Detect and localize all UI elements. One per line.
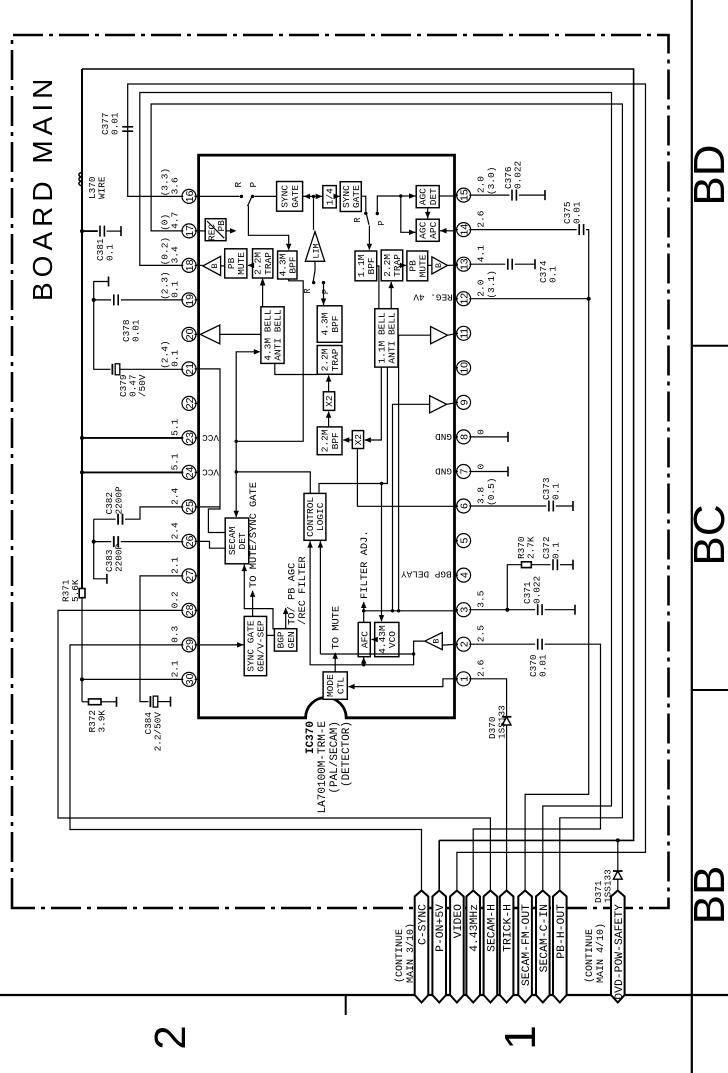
svg-text:/REC FILTER: /REC FILTER [297,556,309,625]
wire pin18/SECAM-C-IN wrap [140,93,612,890]
capacitor C378 at pin19 [121,299,183,301]
svg-text:TO MUTE: TO MUTE [331,606,343,650]
dash-dot border [12,35,669,908]
svg-text:(3.3): (3.3) [160,168,171,197]
svg-text:GND: GND [435,466,452,477]
svg-text:2.0: 2.0 [476,176,487,193]
svg-text:(CONTINUE: (CONTINUE [584,929,596,983]
switch S2 R/P after LIM [314,261,316,270]
svg-text:2: 2 [459,641,471,647]
pin 3 [457,603,471,617]
svg-text:3.8: 3.8 [476,487,487,504]
capacitor C376 at pin15 [469,194,509,196]
svg-text:VCC: VCC [202,467,219,478]
svg-text:(0.5): (0.5) [486,477,497,506]
capacitor C370 at pin2 / 4.43MHz [469,643,535,645]
svg-text:(2.4): (2.4) [160,340,171,369]
svg-text:BPF: BPF [366,257,377,274]
svg-text:4.1: 4.1 [476,245,487,262]
pin 6 [457,499,471,513]
svg-text:18: 18 [184,259,196,271]
arrow TO MUTE/SYNC GATE [252,591,254,616]
svg-text:2200P: 2200P [114,543,125,572]
wire switch S3 P to AGC [377,196,401,214]
svg-text:0.1: 0.1 [548,266,559,283]
amplifier B at pin2 [425,633,443,650]
switch S1 R/P at pin16 [195,195,240,197]
amplifier triangle at pin9 [430,396,447,413]
capacitor C373 at pin6 [469,505,546,507]
wire pin25 joins [199,506,220,508]
wire pin14 to AGC APC [440,230,455,232]
svg-text:MUTE: MUTE [418,254,429,277]
op-amp/IC outline IC370 [199,155,455,718]
pin 20 [182,327,196,341]
arrow REC/PB output [226,230,234,232]
wire pin12 to node [469,298,588,300]
svg-text:C-SYNC: C-SYNC [418,904,430,945]
block REC/PB [205,219,226,241]
svg-text:LA70100M-TRM-E: LA70100M-TRM-E [317,721,329,814]
svg-text:2.5: 2.5 [476,625,487,642]
svg-text:APC: APC [428,221,439,238]
svg-text:3.4: 3.4 [170,246,181,263]
pin 10 [457,361,471,375]
capacitor C371 at pin3 [507,609,535,611]
svg-text:0.1: 0.1 [105,244,116,261]
svg-text:1: 1 [459,676,471,682]
svg-text:VIDEO: VIDEO [453,904,465,938]
connector SECAM-H [484,891,498,1003]
pin 5 [457,534,471,548]
pin 17 [182,224,196,238]
pin 14 [457,223,471,237]
resistor R372 with ground [82,701,89,703]
connector SECAM-FM-OUT [518,891,532,1003]
pin 15 [457,188,471,202]
block 4.3M BPF (1st) [278,251,297,279]
svg-text:22: 22 [184,397,196,409]
svg-text:27: 27 [184,570,196,582]
svg-text:2.4: 2.4 [170,522,181,539]
svg-text:GATE: GATE [290,185,301,208]
svg-text:2: 2 [146,1025,195,1049]
svg-text:BB: BB [685,866,728,925]
connector VIDEO [450,891,464,1003]
block 1.1M BELL / ANTI BELL [375,309,398,367]
wire pin3 node [469,609,507,611]
svg-text:SECAM-C-IN: SECAM-C-IN [539,904,551,972]
svg-text:R: R [233,182,244,188]
block 4.3M BELL / ANTI BELL [261,307,284,364]
svg-text:BD: BD [685,144,728,205]
block 4.43M VCO [375,622,399,656]
wire pin21 to SECAM DET [199,369,226,533]
svg-text:28: 28 [184,604,196,616]
wire 4.3M BELL out to 2.2M TRAP3 [275,363,317,374]
block AFC [358,622,370,656]
block 1.1M BPF [355,251,377,281]
svg-text:4.43MHz: 4.43MHz [469,904,481,952]
svg-text:CTL: CTL [335,677,346,694]
svg-text:SECAM-H: SECAM-H [486,904,498,952]
svg-text:(0): (0) [160,214,171,231]
svg-text:1: 1 [496,1025,545,1049]
svg-text:19: 19 [184,294,196,306]
wire pin20 amp to 4.3M BELL [220,333,261,335]
pin 29 [182,638,196,652]
pin 11 [457,326,471,340]
svg-text:(3.0): (3.0) [486,167,497,196]
block X2 (1st) [323,392,334,411]
amplifier LIM [305,232,324,262]
block 2.2M BPF [317,427,342,455]
block BGP GEN [274,629,296,651]
pin 18 [182,258,196,272]
svg-text:16: 16 [184,190,196,202]
wire branch to 4.43M VCO [381,484,383,622]
wire 1.1M BPF to 2.2M TRAP2 via BELL2 [377,266,379,309]
svg-text:GND: GND [435,431,452,442]
amplifier B at pin13 [432,257,448,274]
svg-text:24: 24 [184,466,196,478]
svg-text:REG. 4V: REG. 4V [413,292,453,303]
svg-text:GATE: GATE [351,185,362,208]
svg-text:ANTI BELL: ANTI BELL [387,312,398,364]
svg-text:0.022: 0.022 [513,161,524,189]
svg-text:(2.3): (2.3) [160,271,171,300]
frame tick marks [692,345,728,347]
svg-text:13: 13 [459,258,471,270]
wire SYNC GATE to 1/4 with node [303,195,323,197]
ground stub near C378 [94,282,109,300]
svg-text:MUTE: MUTE [236,252,247,275]
svg-text:GEN: GEN [286,631,297,648]
wire BGP GEN to SECAM DET [244,565,273,630]
wire 1.1M BELL to X2-2 [365,367,382,440]
block SYNC GATE GEN/V-SEP [244,616,266,675]
wire to AGC APC [401,196,416,232]
svg-text:(CONTINUE: (CONTINUE [394,929,406,983]
svg-text:PB: PB [216,220,227,232]
wire AGC DET to pin15 [439,195,454,197]
connector C-SYNC [415,891,429,1003]
svg-text:2.2/50V: 2.2/50V [153,712,164,752]
pin 9 [457,395,471,409]
svg-text:21: 21 [184,363,196,375]
svg-text:(PAL/SECAM): (PAL/SECAM) [329,721,341,794]
pin 22 [182,396,196,410]
svg-text:B: B [210,263,220,268]
pin 16 [182,189,196,203]
svg-text:DET: DET [237,532,248,549]
svg-text:23: 23 [184,432,196,444]
wire to AGC DET [401,195,416,197]
svg-text:IC370: IC370 [305,721,317,754]
svg-text:8: 8 [459,434,471,440]
svg-text:LOGIC: LOGIC [315,502,326,531]
svg-text:GEN/V-SEP: GEN/V-SEP [256,620,267,672]
svg-text:17: 17 [184,225,196,237]
svg-text:0.01: 0.01 [572,201,583,224]
svg-text:/50V: /50V [137,374,148,397]
amplifier triangle at pin11 [431,327,448,344]
pin 13 [457,257,471,271]
svg-text:BPF: BPF [330,432,341,449]
svg-text:TRICK-H: TRICK-H [503,904,515,952]
svg-text:30: 30 [184,673,196,685]
wire X2-2 to 2.2M BPF [343,439,352,441]
capacitor C383 at pin26 [92,540,96,544]
wire pin9 amp feed [393,404,430,611]
amplifier triangle at pin20 [200,325,219,344]
svg-text:0.01: 0.01 [131,319,142,342]
svg-text:P: P [248,182,259,188]
capacitor C379 at pin21 [94,300,111,369]
svg-text:TRAP: TRAP [263,252,274,275]
svg-text:3.6: 3.6 [170,177,181,194]
block SECAM DET [225,518,249,564]
svg-text:(3.1): (3.1) [486,270,497,299]
arrow FILTER ADJ. [363,602,365,622]
svg-text:12: 12 [459,293,471,305]
pin 24 [182,465,196,479]
wire pin29 to SYNC GATE GEN [195,644,244,646]
svg-text:15: 15 [459,189,471,201]
svg-text:TO MUTE/SYNC GATE: TO MUTE/SYNC GATE [248,482,260,588]
svg-text:BPF: BPF [288,256,299,273]
svg-text:4: 4 [459,572,471,578]
svg-text:0.01: 0.01 [110,112,121,135]
arrow TO MUTE [334,653,336,672]
svg-text:SECAM-FM-OUT: SECAM-FM-OUT [521,904,533,986]
block PB MUTE [225,249,247,278]
svg-text:20: 20 [184,328,196,340]
pin 2 [457,637,471,651]
svg-text:0.022: 0.022 [532,576,543,604]
svg-text:2200P: 2200P [114,486,125,515]
svg-text:11: 11 [459,328,471,339]
connector 4.43MHz [466,891,480,1003]
wire switch S1 to 4.3M BPF [248,206,288,250]
wire node to LIM [313,196,315,229]
svg-text:MAIN 3/10): MAIN 3/10) [405,923,417,983]
svg-text:B: B [434,263,444,268]
diode D371 1SS133 on DVD-POW-SAFETY [616,838,620,842]
amplifier B at pin18 [203,256,221,275]
page frame margin lines [691,0,693,1073]
pin 28 [182,603,196,617]
pin 21 [182,362,196,376]
wire VCC pin24 [80,470,84,474]
block PB MUTE (2nd) [407,251,428,281]
pin 23 [182,431,196,445]
wire VCO to AFC [372,639,375,641]
connector DVD-POW-SAFETY [611,891,625,1003]
svg-text:5.1: 5.1 [170,453,181,470]
wire pin17/PB-H-OUT wrap [151,104,622,890]
wire SYNC GATE2 to switch S3 [361,196,366,211]
svg-text:0: 0 [476,429,487,435]
pin 27 [182,569,196,583]
svg-text:2.0: 2.0 [476,279,487,296]
svg-text:5: 5 [459,538,471,544]
svg-text:2.6: 2.6 [476,659,487,676]
arrow TO/ PB AGC /REC FILTER [285,608,287,629]
svg-text:9: 9 [459,399,471,405]
wire rail to pin30 [80,677,84,681]
capacitor C381 [80,229,84,233]
wire pin11 amp feed [399,335,431,611]
switch S3 R/P before 1.1M BPF [364,212,367,215]
svg-text:TRAP: TRAP [330,348,341,371]
svg-text:VCC: VCC [202,432,219,443]
wire 2.2M TRAP to PB MUTE [248,264,253,266]
ground stub near C383 [94,542,107,579]
wire X2 to 2.2M TRAP3 [328,376,330,392]
wire 4.3M BELL to 2.2M TRAP [262,279,264,307]
wire switch S2 P to 4.3M BPF2 [323,283,325,305]
ground stub pin8 [469,436,508,438]
block 1/4 divider [323,186,337,208]
resistor R370 and capacitor C372 [507,565,521,610]
svg-text:25: 25 [184,501,196,513]
wire BELL2 bottom to CONTROL LOGIC and VCO [319,367,387,493]
svg-text:2.6: 2.6 [476,210,487,227]
svg-text:VCO: VCO [387,631,398,648]
svg-text:7: 7 [459,468,471,474]
wire branch to CONTROL LOGIC [236,472,310,494]
resistor R371 [79,589,85,598]
block 2.2M TRAP (1st) [253,249,273,278]
svg-text:B: B [432,639,442,644]
svg-text:WIRE: WIRE [97,176,108,199]
block CONTROL LOGIC [304,493,326,540]
svg-text:6: 6 [459,503,471,509]
svg-text:(0.2): (0.2) [160,237,171,266]
svg-text:MAIN 4/10): MAIN 4/10) [595,923,607,983]
svg-text:0.1: 0.1 [551,483,562,500]
pin 12 [457,292,471,306]
block MODE CTL [323,672,347,699]
wire BELL2 to 2.2M TRAP2 [390,282,392,309]
connector SECAM-C-IN [536,891,550,1003]
wire B pin2 to AFC / CONTROL LOGIC [310,541,425,665]
wire BPF1 feedback to 4.3M BELL and SECAM DET [236,279,303,441]
connector P-ON+5V [432,891,446,1003]
wire pin1 to MODE CTL [349,679,455,687]
wire AGC DET to AGC APC [427,208,429,219]
block 4.3M BPF (2nd) [317,306,342,343]
svg-text:AFC: AFC [359,631,370,648]
svg-text:0.2: 0.2 [170,591,181,608]
block AGC APC [416,219,439,241]
capacitor C382 at pin25 [125,507,183,519]
wire SYNC GATE GEN to BGP GEN [267,634,275,636]
svg-text:DVD-POW-SAFETY: DVD-POW-SAFETY [614,904,626,1000]
wire pin3 net inside [364,610,458,612]
svg-text:5.1: 5.1 [170,418,181,435]
svg-text:P-ON+5V: P-ON+5V [435,904,447,952]
wire 1/4 to SYNC GATE (2nd) [336,195,340,197]
block X2 (2nd) [352,431,363,449]
svg-text:FILTER ADJ.: FILTER ADJ. [359,530,371,599]
svg-text:2.7K: 2.7K [526,536,537,559]
svg-text:R: R [353,217,363,223]
svg-text:DET: DET [428,188,439,205]
wire pin28 to SECAM-H [58,610,490,889]
wire 2.2M BPF to X2 [328,412,330,427]
svg-text:2.4: 2.4 [170,487,181,504]
svg-text:0.1: 0.1 [170,280,181,297]
pin 8 [457,430,471,444]
svg-text:P: P [321,289,331,294]
block AGC DET [416,186,439,208]
svg-text:0.1: 0.1 [170,349,181,366]
block 2.2M TRAP (2nd) [381,250,403,281]
pin 7 [457,465,471,479]
svg-text:2.1: 2.1 [170,556,181,573]
svg-text:0: 0 [476,464,487,470]
wire AFC bottom branch [363,658,365,665]
connector TRICK-H [500,891,514,1003]
svg-text:X2: X2 [353,434,364,446]
wire pin29 to C-SYNC [70,645,422,890]
wire switch S3 common to 1.1M BPF [368,226,370,250]
svg-text:(DETECTOR): (DETECTOR) [341,721,353,787]
svg-text:BC: BC [685,504,728,565]
svg-text:3.9K: 3.9K [97,710,108,733]
pin 25 [182,500,196,514]
pin 26 [182,534,196,548]
svg-text:5.6K: 5.6K [70,579,81,602]
block 2.2M TRAP (3rd) [317,346,342,375]
block SYNC GATE (1st) [277,182,303,212]
capacitor C375 at pin14 / SECAM-FM-OUT [469,229,576,231]
svg-text:0.1: 0.1 [551,542,562,559]
wire pin17 to REC/PB [199,230,206,232]
pin 30 [182,672,196,686]
svg-text:10: 10 [459,362,471,374]
svg-text:0.3: 0.3 [170,625,181,642]
svg-text:BOARD MAIN: BOARD MAIN [27,74,58,301]
svg-text:X2: X2 [324,395,335,407]
wire X2-2 to pin6 [357,449,458,507]
pin 19 [182,293,196,307]
connector PB-H-OUT [553,891,567,1003]
svg-text:R: R [303,288,313,294]
block SYNC GATE (2nd) [340,182,361,212]
capacitor C377 on pin16/VIDEO wrap [128,84,646,890]
svg-text:PB-H-OUT: PB-H-OUT [556,904,568,959]
svg-text:4.7: 4.7 [170,212,181,229]
svg-text:P: P [377,220,387,225]
svg-text:3.5: 3.5 [476,590,487,607]
svg-text:LIM: LIM [311,243,321,258]
pin 4 [457,568,471,582]
wire VCC pin23 [80,436,84,440]
svg-text:BPF: BPF [330,315,341,332]
svg-text:1SS133: 1SS133 [497,705,508,739]
capacitor C374 at pin13 [469,263,505,265]
svg-text:BGP DELAY: BGP DELAY [401,569,452,580]
wire pin26 to SECAM DET [199,541,226,548]
inductor L370 [79,173,82,186]
svg-text:2.1: 2.1 [170,660,181,677]
svg-text:14: 14 [459,224,471,236]
ground stub pin7 [469,471,508,473]
svg-text:0.01: 0.01 [538,654,549,677]
